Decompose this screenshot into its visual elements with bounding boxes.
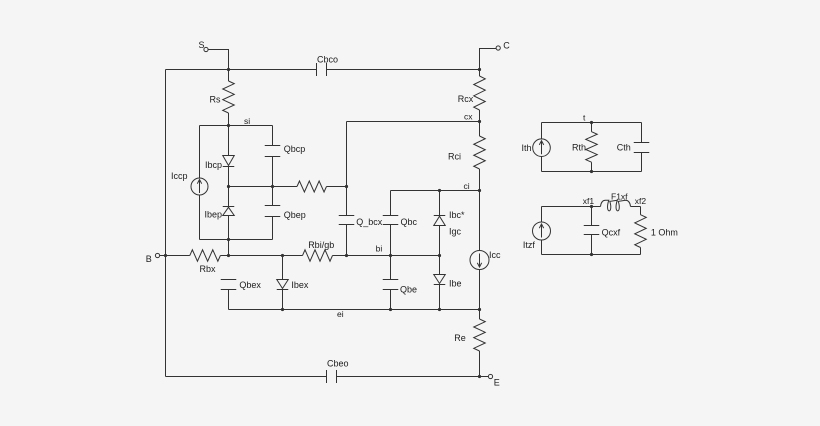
- junction bi / Ibe branch: [438, 254, 441, 257]
- junction xf1 node: [590, 205, 593, 208]
- junction bi / Ibex branch: [281, 254, 284, 257]
- wire Itzf upper: [541, 207, 543, 223]
- inductor F1xf: [601, 200, 631, 211]
- junction pnp mid / Q_bcx branch: [345, 185, 348, 188]
- junction B / left rail: [164, 254, 167, 257]
- current source Ith: [533, 139, 551, 157]
- wire Icc to ei: [479, 270, 481, 310]
- junction ei / Ibe: [438, 308, 441, 311]
- wire Qbc branch upper: [390, 191, 392, 216]
- wire spine Ibcp to Ibep: [228, 167, 230, 207]
- wire spine Ibep to box bottom: [228, 216, 230, 240]
- junction ei / Qbe: [389, 308, 392, 311]
- wire bi Rbigb to Ibe branch: [333, 255, 440, 257]
- capacitor Cth: [634, 142, 650, 144]
- wire right rail ci to Icc: [479, 191, 481, 251]
- thermal box bottom wire: [542, 171, 642, 173]
- wire Ibe to ei: [439, 285, 441, 310]
- junction spine / top rail: [227, 68, 230, 71]
- wire S terminal to spine: [208, 50, 228, 70]
- terminal S: [204, 47, 208, 51]
- wire Ibex branch upper: [282, 256, 284, 280]
- diode Ibex: [277, 280, 289, 289]
- svg-text:xf2: xf2: [635, 196, 647, 206]
- svg-text:Rcx: Rcx: [458, 94, 474, 104]
- terminal E: [488, 374, 492, 378]
- svg-text:ci: ci: [464, 181, 470, 191]
- capacitor Qbex: [221, 279, 237, 281]
- junction ci / Ibc branch: [438, 189, 441, 192]
- junction bi / Qbc branch: [389, 254, 392, 257]
- wire pnp box right mid: [272, 157, 274, 206]
- node si wire: [200, 125, 273, 127]
- wire pnp box right lower: [272, 217, 274, 240]
- svg-text:Qcxf: Qcxf: [602, 228, 621, 238]
- wire thermal left upper: [541, 123, 543, 140]
- svg-text:S: S: [199, 40, 205, 50]
- junction cx / right rail: [478, 120, 481, 123]
- wire Ibc branch upper: [439, 191, 441, 216]
- wire pnp box left upper: [199, 126, 201, 179]
- svg-text:Iccp: Iccp: [171, 171, 188, 181]
- junction spine / si wire: [227, 124, 230, 127]
- wire thermal left lower: [541, 156, 543, 171]
- junction ci / right rail: [478, 189, 481, 192]
- svg-text:Rbi/gb: Rbi/gb: [308, 240, 334, 250]
- svg-text:Cbco: Cbco: [317, 55, 338, 65]
- capacitor Qbe: [383, 279, 399, 281]
- svg-text:C: C: [503, 41, 510, 51]
- junction thermal bottom: [590, 170, 593, 173]
- svg-text:E: E: [494, 378, 500, 388]
- svg-text:Icc: Icc: [489, 250, 501, 260]
- wire spine Rs to Ibcp: [228, 113, 230, 156]
- wire thermal right upper: [641, 123, 643, 143]
- diode Ibcp: [223, 156, 235, 166]
- pnp box bottom wire: [200, 239, 273, 241]
- wire bi Rbx to Rbigb: [220, 255, 302, 257]
- svg-text:Qbep: Qbep: [284, 210, 306, 220]
- top rail left segment: [166, 69, 317, 71]
- junction bi / Q_bcx branch: [345, 254, 348, 257]
- junction xf bottom: [590, 253, 593, 256]
- diode Ibc* (Igc): [434, 215, 446, 217]
- svg-text:Ibc*: Ibc*: [449, 210, 465, 220]
- junction ei / right rail: [478, 308, 481, 311]
- svg-text:Re: Re: [454, 333, 466, 343]
- resistor Rbx: [190, 250, 221, 262]
- junction bottom rail / emitter: [478, 375, 481, 378]
- svg-text:Rth: Rth: [572, 143, 586, 153]
- wire pnp box left lower: [199, 195, 201, 240]
- svg-text:Ibcp: Ibcp: [205, 160, 222, 170]
- junction pnp box right / mid wire: [271, 185, 274, 188]
- xf box top wire right: [631, 206, 641, 208]
- svg-text:F1xf: F1xf: [611, 191, 628, 201]
- capacitor Cbco: [316, 63, 318, 76]
- svg-text:cx: cx: [464, 111, 473, 121]
- junction C / top rail: [478, 68, 481, 71]
- pnp mid wire right: [327, 186, 347, 188]
- svg-text:B: B: [146, 254, 152, 264]
- current source Icc: [470, 251, 489, 270]
- node ei wire: [229, 309, 480, 311]
- svg-text:1 Ohm: 1 Ohm: [651, 228, 678, 238]
- svg-text:Ibep: Ibep: [204, 210, 222, 220]
- capacitor Q_bcx: [339, 215, 355, 217]
- svg-text:Qbe: Qbe: [400, 285, 417, 295]
- wire Qcxf upper: [591, 207, 593, 226]
- wire to E terminal: [480, 376, 489, 378]
- top rail right segment: [327, 69, 480, 71]
- junction spine / pnp mid wire: [227, 185, 230, 188]
- svg-text:ei: ei: [337, 309, 344, 319]
- thermal box top wire: [542, 122, 642, 124]
- svg-text:si: si: [244, 116, 250, 126]
- junction t node: [590, 121, 593, 124]
- diode Ibe: [434, 275, 446, 284]
- wire spine top: [228, 70, 230, 82]
- current source Iccp: [191, 178, 208, 195]
- resistor Rth: [591, 123, 593, 132]
- svg-text:Rci: Rci: [448, 152, 461, 162]
- wire Ibex branch lower: [282, 290, 284, 310]
- left rail S-net: [165, 70, 167, 377]
- wire Qbc branch mid: [390, 225, 392, 280]
- svg-text:Rs: Rs: [210, 95, 221, 105]
- resistor Rbi/gb: [303, 250, 333, 262]
- wire Itzf lower: [541, 240, 543, 255]
- svg-text:bi: bi: [376, 243, 383, 253]
- wire pnp box right upper: [272, 126, 274, 146]
- wire Q_bcx branch lower: [346, 225, 348, 256]
- capacitor Qbc: [383, 215, 399, 217]
- wire Q_bcx branch upper: [346, 122, 348, 216]
- bottom rail right segment: [337, 376, 480, 378]
- wire C terminal to right rail: [480, 49, 497, 70]
- svg-text:Q_bcx: Q_bcx: [356, 217, 383, 227]
- node ci wire: [391, 190, 480, 192]
- terminal C: [496, 46, 500, 50]
- svg-text:Qbc: Qbc: [401, 217, 418, 227]
- svg-text:Itzf: Itzf: [523, 240, 536, 250]
- wire Qcxf lower: [591, 235, 593, 255]
- capacitor Cbeo: [326, 370, 328, 383]
- resistor Rcx: [479, 70, 481, 77]
- junction bi / spine: [227, 254, 230, 257]
- resistor 1 Ohm: [640, 207, 642, 215]
- wire Ibc branch to bi: [439, 226, 441, 275]
- diode Ibep: [223, 206, 235, 208]
- capacitor Qcxf: [584, 225, 600, 227]
- svg-text:Qbex: Qbex: [239, 280, 261, 290]
- svg-text:Ibex: Ibex: [291, 280, 309, 290]
- svg-text:Cbeo: Cbeo: [327, 359, 349, 369]
- resistor Rci: [479, 122, 481, 137]
- svg-text:Igc: Igc: [449, 227, 462, 237]
- junction spine / box bottom: [227, 238, 230, 241]
- terminal B: [155, 253, 159, 257]
- capacitor Qbep: [265, 205, 281, 207]
- resistor Rs: [223, 81, 235, 113]
- junction ei / Ibex: [281, 308, 284, 311]
- xf box top wire left: [542, 206, 601, 208]
- svg-text:Ith: Ith: [522, 143, 532, 153]
- wire bi left rail to Rbx: [166, 255, 190, 257]
- wire spine box bottom to bi: [228, 240, 230, 256]
- wire B to left rail: [160, 255, 166, 257]
- svg-text:xf1: xf1: [583, 196, 595, 206]
- capacitor Qbcp: [265, 145, 281, 147]
- wire Qbc branch lower: [390, 290, 392, 310]
- current source Itzf: [533, 222, 551, 240]
- pnp mid wire left: [229, 186, 298, 188]
- resistor pnp collector: [297, 181, 327, 192]
- xf box bottom wire: [542, 254, 641, 256]
- wire thermal right lower: [641, 153, 643, 172]
- node cx wire: [347, 121, 480, 123]
- svg-text:Cth: Cth: [617, 143, 631, 153]
- resistor Re: [479, 310, 481, 320]
- svg-text:Rbx: Rbx: [200, 264, 217, 274]
- wire Qbex to ei: [228, 290, 230, 310]
- svg-text:Ibe: Ibe: [449, 279, 462, 289]
- svg-text:Qbcp: Qbcp: [284, 144, 306, 154]
- bottom rail left segment: [166, 376, 327, 378]
